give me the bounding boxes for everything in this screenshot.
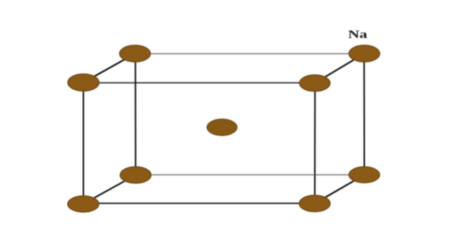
- wire: left back vertical edge: [134, 54, 136, 175]
- wire: bottom-right depth diagonal: [315, 175, 365, 204]
- svg-text:Na: Na: [348, 28, 368, 40]
- atom: back bottom left corner: [120, 167, 151, 183]
- wire: back bottom edge: [136, 174, 365, 176]
- wire: bottom-left depth diagonal: [83, 175, 135, 204]
- atom: front top right corner: [300, 75, 331, 91]
- wire: back top edge: [135, 53, 364, 55]
- wire: right back vertical edge: [363, 54, 365, 175]
- atom: back bottom right corner: [349, 167, 380, 183]
- atom: front bottom left corner: [68, 196, 99, 212]
- atom: back top left corner: [120, 45, 151, 62]
- atom: body center: [207, 119, 237, 135]
- atom: front top left corner: [68, 74, 99, 91]
- wire: right front vertical edge: [314, 83, 316, 204]
- wire: left front vertical edge: [82, 83, 84, 204]
- atom: front bottom right corner: [299, 195, 330, 211]
- wire: top-left depth diagonal: [83, 54, 135, 83]
- wire: front top edge: [83, 82, 314, 84]
- wire: top-right depth diagonal: [315, 54, 365, 84]
- atom: back top right corner: [349, 45, 380, 62]
- wire: front bottom edge: [83, 202, 314, 204]
